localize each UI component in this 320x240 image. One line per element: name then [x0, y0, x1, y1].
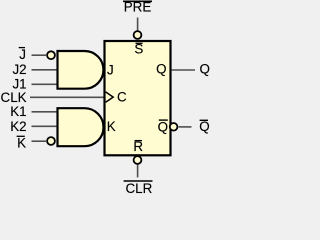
bubble R (active-low clear pin)	[134, 156, 142, 164]
svg-text:K1: K1	[10, 104, 26, 119]
wire input Kbar	[32, 140, 47, 142]
wire input K2	[32, 125, 58, 127]
AND gate U2 (K inputs)	[58, 108, 104, 146]
svg-text:Q: Q	[158, 119, 168, 134]
output bubble on Qbar	[170, 123, 178, 131]
wire input J1	[32, 83, 58, 85]
svg-text:J: J	[107, 62, 114, 77]
wire input K1	[32, 111, 58, 113]
JK flip-flop U3 body	[105, 41, 171, 155]
svg-text:R: R	[133, 139, 143, 154]
svg-text:C: C	[117, 89, 127, 104]
wire input J2	[32, 69, 58, 71]
net label PRE (overline)	[123, 0, 152, 15]
svg-text:K2: K2	[10, 119, 26, 134]
wire input CLK	[30, 96, 104, 98]
wire input Jbar	[32, 54, 47, 56]
wire output Q	[172, 69, 195, 71]
svg-text:J2: J2	[12, 62, 26, 77]
clock triangle marker	[106, 92, 114, 102]
net label Jbar	[19, 47, 26, 62]
net label Qbar	[199, 119, 209, 134]
bubble S (active-low preset pin)	[134, 31, 142, 39]
net label CLR (overline)	[124, 181, 153, 196]
pin label Sbar	[134, 42, 143, 57]
pin label Qbar inner	[158, 119, 168, 134]
svg-text:K: K	[107, 119, 116, 134]
svg-text:J: J	[19, 47, 26, 62]
wire PRE to S bubble	[137, 18, 139, 31]
svg-text:CLR: CLR	[126, 181, 153, 194]
svg-text:CLK: CLK	[1, 90, 27, 105]
svg-text:Q: Q	[156, 61, 166, 76]
wire output Qbar	[179, 126, 192, 128]
svg-text:Q: Q	[199, 119, 209, 134]
inverter bubble on Kbar input	[47, 137, 55, 145]
svg-text:Q: Q	[200, 62, 210, 77]
net label Kbar	[17, 136, 26, 151]
AND gate U1 (J inputs)	[58, 51, 104, 89]
svg-text:PRE: PRE	[124, 0, 152, 15]
svg-text:K: K	[17, 136, 26, 151]
wire R bubble to CLR	[137, 165, 139, 178]
inverter bubble on Jbar input	[47, 51, 55, 59]
pin label Rbar	[133, 139, 143, 154]
